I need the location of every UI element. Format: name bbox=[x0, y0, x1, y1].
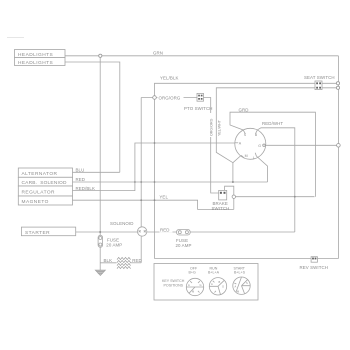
wire G to rail bbox=[266, 144, 337, 146]
svg-text:MAGNETO: MAGNETO bbox=[22, 199, 49, 205]
svg-text:ORG/ORG: ORG/ORG bbox=[210, 118, 214, 136]
junction B drop ground link bbox=[294, 196, 296, 198]
svg-text:S: S bbox=[244, 133, 247, 137]
svg-text:REGULATOR: REGULATOR bbox=[22, 190, 56, 196]
wire YEL magneto bbox=[73, 200, 234, 209]
svg-text:GRD: GRD bbox=[239, 107, 249, 112]
wire headlights 2 drop bbox=[65, 62, 120, 172]
terminal G bbox=[262, 144, 265, 146]
svg-text:G: G bbox=[200, 283, 202, 287]
svg-text:ORG/ORG: ORG/ORG bbox=[159, 96, 181, 101]
wire ORG/ORG PTO left bbox=[141, 97, 197, 99]
rev switch connector bbox=[311, 257, 317, 263]
svg-text:L: L bbox=[253, 156, 255, 160]
svg-text:POSITIONS: POSITIONS bbox=[164, 283, 184, 287]
svg-text:HEADLIGHTS: HEADLIGHTS bbox=[18, 60, 53, 66]
svg-text:20 AMP: 20 AMP bbox=[106, 242, 122, 247]
node ORG/ORG bbox=[153, 96, 157, 100]
svg-text:SOLENOID: SOLENOID bbox=[110, 221, 134, 226]
label RED solenoid wire bbox=[160, 228, 173, 233]
label vertical YEL/WHT bbox=[218, 119, 222, 136]
starter box bbox=[21, 227, 75, 236]
headlights box 1 bbox=[15, 50, 66, 58]
svg-text:BLU: BLU bbox=[76, 168, 85, 173]
node seat switch top rail bbox=[336, 82, 339, 85]
terminal S bbox=[243, 130, 245, 133]
regulator box bbox=[18, 186, 72, 196]
svg-text:S: S bbox=[246, 281, 248, 285]
brake switch connector bbox=[219, 190, 227, 200]
svg-text:G: G bbox=[222, 285, 224, 289]
svg-text:A: A bbox=[235, 285, 237, 289]
svg-text:ALTERNATOR: ALTERNATOR bbox=[22, 171, 58, 177]
svg-text:RED: RED bbox=[76, 177, 86, 182]
wire M diagonal bbox=[233, 156, 241, 163]
legend box bbox=[154, 264, 258, 301]
svg-text:YEL: YEL bbox=[159, 195, 168, 200]
svg-text:B+L+S: B+L+S bbox=[234, 270, 246, 274]
label vertical ORG/ORG bbox=[209, 113, 214, 137]
wire RED carb solenoid bbox=[73, 181, 268, 183]
node GRN headlights bbox=[99, 54, 102, 57]
svg-text:A: A bbox=[239, 142, 242, 146]
terminal L bbox=[255, 153, 256, 156]
wire PTO right drop bbox=[204, 98, 219, 194]
svg-text:M: M bbox=[192, 290, 194, 294]
wire GRD ignition S bbox=[230, 112, 315, 197]
junction M drop RED bbox=[232, 181, 234, 183]
alternator box bbox=[18, 168, 72, 177]
svg-text:YEL/WHT: YEL/WHT bbox=[218, 119, 222, 136]
svg-text:STARTER: STARTER bbox=[25, 230, 50, 236]
svg-text:YEL/BLK: YEL/BLK bbox=[160, 75, 179, 80]
svg-text:CARB. SOLENIOD: CARB. SOLENIOD bbox=[22, 180, 67, 186]
battery hatch bbox=[117, 257, 131, 268]
junction solenoid riser YEL bbox=[140, 199, 142, 201]
svg-text:20 AMP: 20 AMP bbox=[176, 243, 192, 248]
node brake switch ground bbox=[232, 195, 235, 198]
svg-text:RED: RED bbox=[132, 258, 142, 263]
svg-text:B+L+A: B+L+A bbox=[208, 270, 220, 274]
svg-text:RED/BLK: RED/BLK bbox=[76, 186, 96, 191]
svg-text:GRN: GRN bbox=[153, 50, 163, 55]
junction RED/BLK riser bbox=[134, 181, 136, 183]
ignition switch circle bbox=[235, 128, 266, 159]
wire RED/BLK regulator bbox=[73, 143, 235, 191]
svg-text:RED/WHT: RED/WHT bbox=[262, 121, 283, 126]
wire GRN headlights top bbox=[65, 55, 338, 57]
svg-text:REV SWITCH: REV SWITCH bbox=[300, 265, 329, 270]
wire brake up link bbox=[225, 186, 234, 209]
pto switch connector bbox=[197, 93, 204, 101]
junction starter/fuse bbox=[99, 231, 101, 233]
junction ground riser RED bbox=[154, 181, 156, 183]
carb solenoid box bbox=[18, 177, 72, 186]
wire seat right stubs bbox=[322, 83, 337, 88]
faint artifact line bbox=[7, 37, 24, 39]
wire solenoid riser bbox=[140, 98, 142, 263]
terminal M bbox=[241, 155, 244, 158]
svg-text:G: G bbox=[258, 144, 261, 148]
svg-text:B+G: B+G bbox=[189, 270, 196, 274]
fuse 2 bbox=[177, 229, 191, 235]
ground symbol bbox=[95, 270, 105, 275]
wire BLK battery bbox=[100, 262, 116, 264]
node G wire rail bbox=[337, 144, 341, 148]
svg-text:SWITCH: SWITCH bbox=[212, 206, 230, 211]
svg-text:B: B bbox=[219, 280, 221, 284]
wire ground rail left bbox=[99, 56, 101, 270]
wire right rail bbox=[317, 56, 338, 259]
headlights box 2 bbox=[15, 58, 66, 66]
svg-text:B: B bbox=[255, 133, 258, 137]
wire YEL/BLK seat top bbox=[155, 83, 316, 258]
svg-text:A: A bbox=[188, 283, 190, 287]
svg-text:SEAT SWITCH: SEAT SWITCH bbox=[304, 75, 335, 80]
svg-text:A: A bbox=[211, 282, 213, 286]
junction solenoid riser RED bbox=[140, 181, 142, 183]
svg-text:PTO SWITCH: PTO SWITCH bbox=[184, 106, 212, 111]
svg-text:M: M bbox=[245, 154, 248, 158]
wire battery to solenoid bbox=[130, 262, 141, 264]
terminal B bbox=[256, 130, 258, 134]
fuse 1 bbox=[98, 235, 103, 247]
solenoid bbox=[137, 227, 146, 236]
wire brake node to GRD drop bbox=[236, 196, 315, 198]
wire BLU alternator bbox=[73, 171, 120, 173]
label ORG/ORG on wire bbox=[158, 95, 184, 100]
seat switch connector bbox=[315, 81, 322, 90]
wire starter RED main bbox=[76, 231, 295, 233]
svg-text:M: M bbox=[237, 290, 239, 294]
wire RED/WHT ignition B bbox=[258, 128, 295, 232]
svg-text:RED: RED bbox=[160, 228, 170, 233]
magneto box bbox=[18, 196, 72, 205]
node seat switch bottom rail bbox=[336, 86, 339, 89]
junction ground riser A-wire bbox=[154, 142, 156, 144]
wire L drop bbox=[256, 156, 267, 182]
wire seat lower bbox=[216, 88, 315, 182]
terminal A bbox=[235, 142, 238, 144]
svg-text:HEADLIGHTS: HEADLIGHTS bbox=[18, 52, 53, 58]
svg-text:BLK: BLK bbox=[104, 258, 113, 263]
junction ground riser YEL bbox=[154, 199, 156, 201]
